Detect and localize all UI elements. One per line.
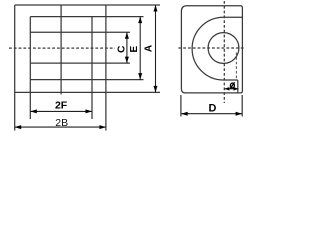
D right extension	[241, 95, 243, 117]
left view: cavity top edge + E top extension	[30, 16, 143, 18]
D left extension	[180, 95, 182, 117]
left view: window top line + C top extension	[30, 31, 130, 33]
arrow D left	[181, 112, 188, 116]
dimension 2B line	[15, 126, 106, 128]
arrow 2F left	[30, 109, 37, 113]
dimension C line	[126, 32, 128, 63]
dimension E line	[139, 17, 141, 80]
right view vertical centerline	[223, 1, 225, 103]
arrow slot left	[225, 87, 230, 91]
left view horizontal centerline	[9, 47, 115, 49]
slot right edge	[237, 80, 239, 93]
core body arc (circle with top and bottom flats)	[192, 17, 223, 80]
arrow 2F right	[86, 109, 93, 113]
arrow 2B right	[99, 125, 106, 129]
dimension D line	[181, 113, 242, 115]
left view: cavity bottom edge + E bottom extension	[30, 79, 143, 81]
svg-text:2F: 2F	[55, 100, 68, 112]
arrow C top	[125, 32, 129, 39]
arrow E top	[138, 17, 142, 24]
svg-text:E: E	[129, 45, 140, 52]
center hole circle	[208, 33, 239, 64]
arrow 2B left	[15, 125, 22, 129]
right view horizontal centerline	[178, 47, 245, 49]
arrow E bottom	[138, 73, 142, 80]
left view: outer right edge + 2B right extension	[105, 5, 107, 131]
right view	[178, 1, 245, 117]
square outline with rounded corners	[181, 6, 242, 93]
dimension A line	[155, 5, 157, 92]
arrow C bottom	[125, 57, 129, 64]
svg-text:C: C	[117, 46, 128, 53]
left view: cavity left wall + 2F left extension	[29, 17, 31, 119]
slot dimension line	[225, 88, 239, 90]
left view: outer left edge + 2B left extension	[14, 5, 16, 131]
left view: outer bottom edge + A bottom extension	[15, 91, 160, 93]
hidden slot line	[235, 53, 237, 81]
svg-text:D: D	[208, 103, 216, 115]
label slot diameter symbol	[230, 82, 234, 88]
left view: cavity right wall + 2F right extension	[91, 17, 93, 119]
left view: window bottom line + C bottom extension	[30, 62, 130, 64]
left view: center partition	[60, 5, 62, 94]
dimension 2F line	[30, 110, 92, 112]
arrow A bottom	[154, 86, 158, 93]
svg-text:2B: 2B	[55, 117, 68, 129]
bottom flat / slot top edge	[224, 79, 238, 81]
svg-text:A: A	[144, 45, 155, 52]
arrow D right	[236, 112, 243, 116]
top flat edge	[224, 16, 243, 18]
arrow slot right	[234, 87, 239, 91]
left view: outer top edge + A top extension	[15, 4, 160, 6]
arrow A top	[154, 5, 158, 12]
